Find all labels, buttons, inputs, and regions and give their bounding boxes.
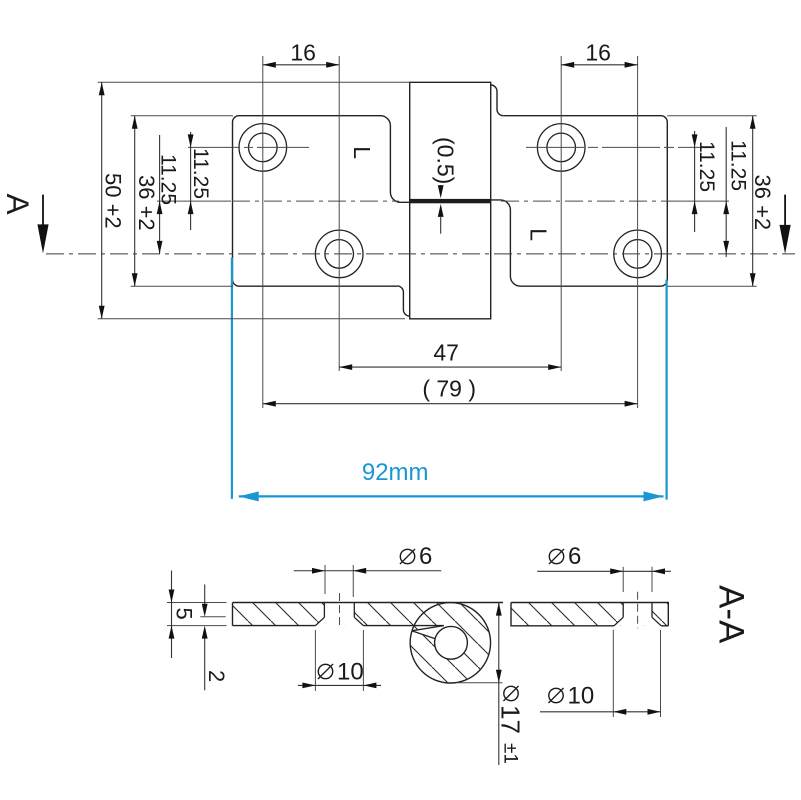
dimension 50+2 extension line top (98, 81, 410, 83)
dimension 50+2 extension line bottom (98, 318, 405, 320)
dimension dia10 (right) extensions (612, 630, 614, 717)
svg-text:L: L (349, 146, 375, 159)
svg-text:6: 6 (568, 543, 581, 570)
dimension (0.5) leader arrows (440, 185, 442, 192)
mounting hole lower-left inner (325, 240, 354, 269)
dimension 36+2 (right) extension bottom (667, 285, 756, 287)
mounting hole lower-left outer (315, 230, 363, 278)
hole column extension line lower-left (338, 56, 340, 371)
dimension dia6 (right) text (549, 549, 564, 564)
upper-left hole horizontal centreline (188, 146, 312, 148)
svg-text:11.25: 11.25 (727, 140, 750, 191)
dimension 5 extension lines (167, 602, 227, 604)
hinge slit gap line (right leaf top edge) (410, 199, 501, 201)
section arrow A right (784, 195, 786, 225)
section arrow A left (42, 195, 44, 226)
left leaf plate outline (233, 116, 401, 287)
dimension 11.25 (left outer) line and arrows (159, 135, 161, 254)
dimension dia6 (left) extensions (324, 565, 326, 594)
dimension dia10 (left) line and arrows (298, 684, 381, 686)
svg-text:36 +2: 36 +2 (750, 175, 775, 231)
svg-text:L: L (525, 228, 551, 241)
svg-text:5: 5 (172, 608, 197, 620)
svg-text:11.25: 11.25 (189, 148, 212, 199)
svg-text:( 79 ): ( 79 ) (422, 376, 476, 402)
svg-text:17: 17 (496, 705, 526, 734)
svg-text:2: 2 (204, 670, 229, 682)
dimension dia10 (right) text (548, 688, 563, 703)
hinge slit dark band (410, 199, 491, 203)
svg-text:36 +2: 36 +2 (134, 175, 159, 231)
dimension 11.25 (left inner) line and arrows (190, 132, 192, 230)
dimension dia10 (right) line and arrows (540, 711, 661, 713)
svg-text:16: 16 (290, 40, 316, 66)
step joining knuckle to left leaf bottom edge (397, 286, 410, 316)
section right countersunk hole (622, 603, 624, 618)
mounting hole lower-right outer (614, 230, 662, 278)
dimension 92mm line and arrows (239, 495, 664, 497)
dimension 36+2 (right) line and arrows (752, 116, 754, 287)
dimension dia6 (right) line and arrows (537, 570, 671, 572)
svg-text:10: 10 (568, 683, 595, 710)
curl relief wedge (412, 626, 444, 639)
svg-text:50 +2: 50 +2 (101, 173, 126, 229)
dimension dia10 (left) text (318, 664, 333, 679)
dimension dia17 extension line bottom (457, 682, 503, 684)
hinge pin circle (435, 626, 468, 659)
hole column extension line upper-left (262, 56, 264, 408)
section A-A centreline (lower) (46, 253, 795, 255)
svg-text:16: 16 (585, 40, 611, 66)
step joining knuckle to right leaf top edge (491, 85, 504, 116)
dimension 36+2 (right) extension top (667, 115, 756, 117)
dimension dia17 line and arrows (498, 603, 500, 765)
dimension 36+2 (left) line and arrows (134, 116, 136, 287)
dimension (79) line and arrows (263, 403, 638, 405)
section left hole centreline (339, 593, 341, 628)
mounting hole lower-right inner (623, 240, 652, 269)
section right bar hatched (505, 596, 675, 632)
dimension dia17 text (503, 686, 518, 701)
hinge centre knuckle column outline (410, 82, 491, 318)
hinge axis centreline (upper) (157, 200, 231, 202)
dimension dia6 (right) extensions (622, 567, 624, 592)
right leaf plate outline (500, 116, 667, 287)
mounting hole upper-left outer (239, 124, 287, 172)
section right hole centreline (637, 592, 639, 629)
mounting hole upper-right outer (537, 124, 585, 172)
hinge slit gap line (left leaf bottom edge) (400, 201, 490, 203)
dimension 50+2 line and arrows (101, 82, 103, 318)
dimension 2 extension line (200, 616, 225, 618)
section left bar left end (232, 603, 234, 626)
svg-text:11.25: 11.25 (157, 154, 180, 205)
section top surface line (233, 602, 504, 604)
dimension 11.25 (right inner) line and arrows (694, 131, 696, 232)
svg-text:10: 10 (337, 659, 364, 686)
mounting hole upper-left inner (248, 133, 277, 162)
upper-right hole horizontal centreline (526, 146, 701, 148)
dimension 92mm extension line right (665, 280, 667, 500)
section left bar bottom edge (233, 625, 316, 627)
svg-text:47: 47 (433, 340, 459, 366)
svg-text:(0.5): (0.5) (433, 137, 459, 184)
section left leaf hatched plate (225, 596, 500, 690)
dimension 47 line and arrows (339, 366, 561, 368)
dimension 11.25 (right middle) line and arrows (725, 127, 727, 257)
dimension 92mm extension line left (231, 258, 233, 499)
svg-text:11.25: 11.25 (695, 141, 718, 192)
dimension 36+2 extension line bottom (131, 285, 233, 287)
svg-text:6: 6 (419, 543, 432, 570)
dimension 2 line and arrows (204, 585, 206, 605)
dimension dia6 (left) text (400, 549, 415, 564)
dimension 5 line and arrows (171, 571, 173, 659)
svg-text:A: A (0, 194, 36, 215)
hole column extension line lower-right (637, 56, 639, 408)
curl outer circle (410, 603, 490, 683)
svg-text:92mm: 92mm (362, 459, 429, 486)
dimension 36+2 extension line top (131, 115, 233, 117)
svg-text:A-A: A-A (712, 585, 751, 644)
hole column extension line upper-right (560, 56, 562, 371)
dimension dia6 (left) line and arrows (294, 570, 442, 572)
dimension 16 (right) line and arrows (561, 64, 637, 66)
mounting hole upper-right inner (547, 133, 576, 162)
section left countersunk hole (323, 603, 325, 618)
dimension 16 (left) line and arrows (263, 64, 339, 66)
dimension dia10 (left) extensions (314, 630, 316, 691)
section right bar outline (511, 603, 668, 626)
svg-text:±1: ±1 (500, 743, 521, 764)
